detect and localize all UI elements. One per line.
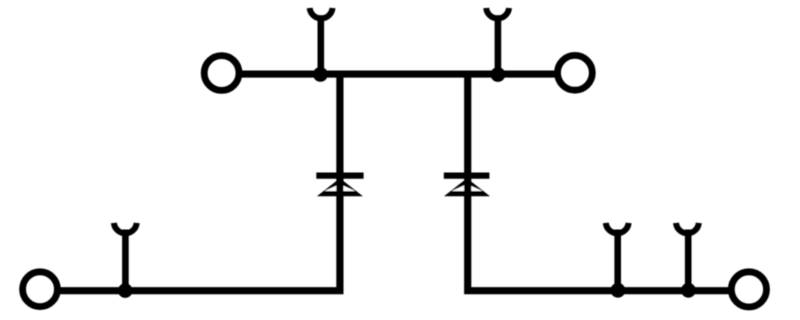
test socket bottom-mid-right arc [606, 223, 629, 233]
test socket bottom-left stem wire [122, 230, 129, 291]
diode V1 triangle [317, 178, 363, 196]
test socket top-left arc [310, 8, 333, 18]
junction dot bottom-mid-right [611, 283, 626, 298]
test socket top-left stem wire [317, 15, 324, 74]
diode V1 cathode bar [316, 173, 363, 179]
diode V2 triangle [444, 178, 490, 196]
terminal circle top-right [558, 55, 593, 90]
terminal circle top-left [204, 56, 239, 91]
junction dot top-left [313, 67, 328, 82]
terminal circle bottom-right [731, 272, 766, 307]
test socket bottom-right arc [676, 223, 699, 233]
terminal circle bottom-left [23, 272, 58, 307]
test socket bottom-right stem wire [685, 230, 692, 291]
wire top rail [241, 71, 555, 78]
test socket bottom-left arc [114, 223, 137, 233]
wire left branch (vertical through diode V1, corner, lower-left rail) [60, 74, 340, 291]
junction dot top-right [491, 67, 506, 82]
diode V2 cathode bar [444, 173, 490, 179]
test socket bottom-mid-right stem wire [614, 230, 621, 291]
wire right branch (vertical through diode V2, corner, lower-right rail) [468, 74, 729, 291]
junction dot bottom-left [118, 283, 133, 298]
junction dot bottom-right [681, 283, 696, 298]
test socket top-right arc [486, 8, 509, 18]
test socket top-right stem wire [495, 15, 502, 74]
